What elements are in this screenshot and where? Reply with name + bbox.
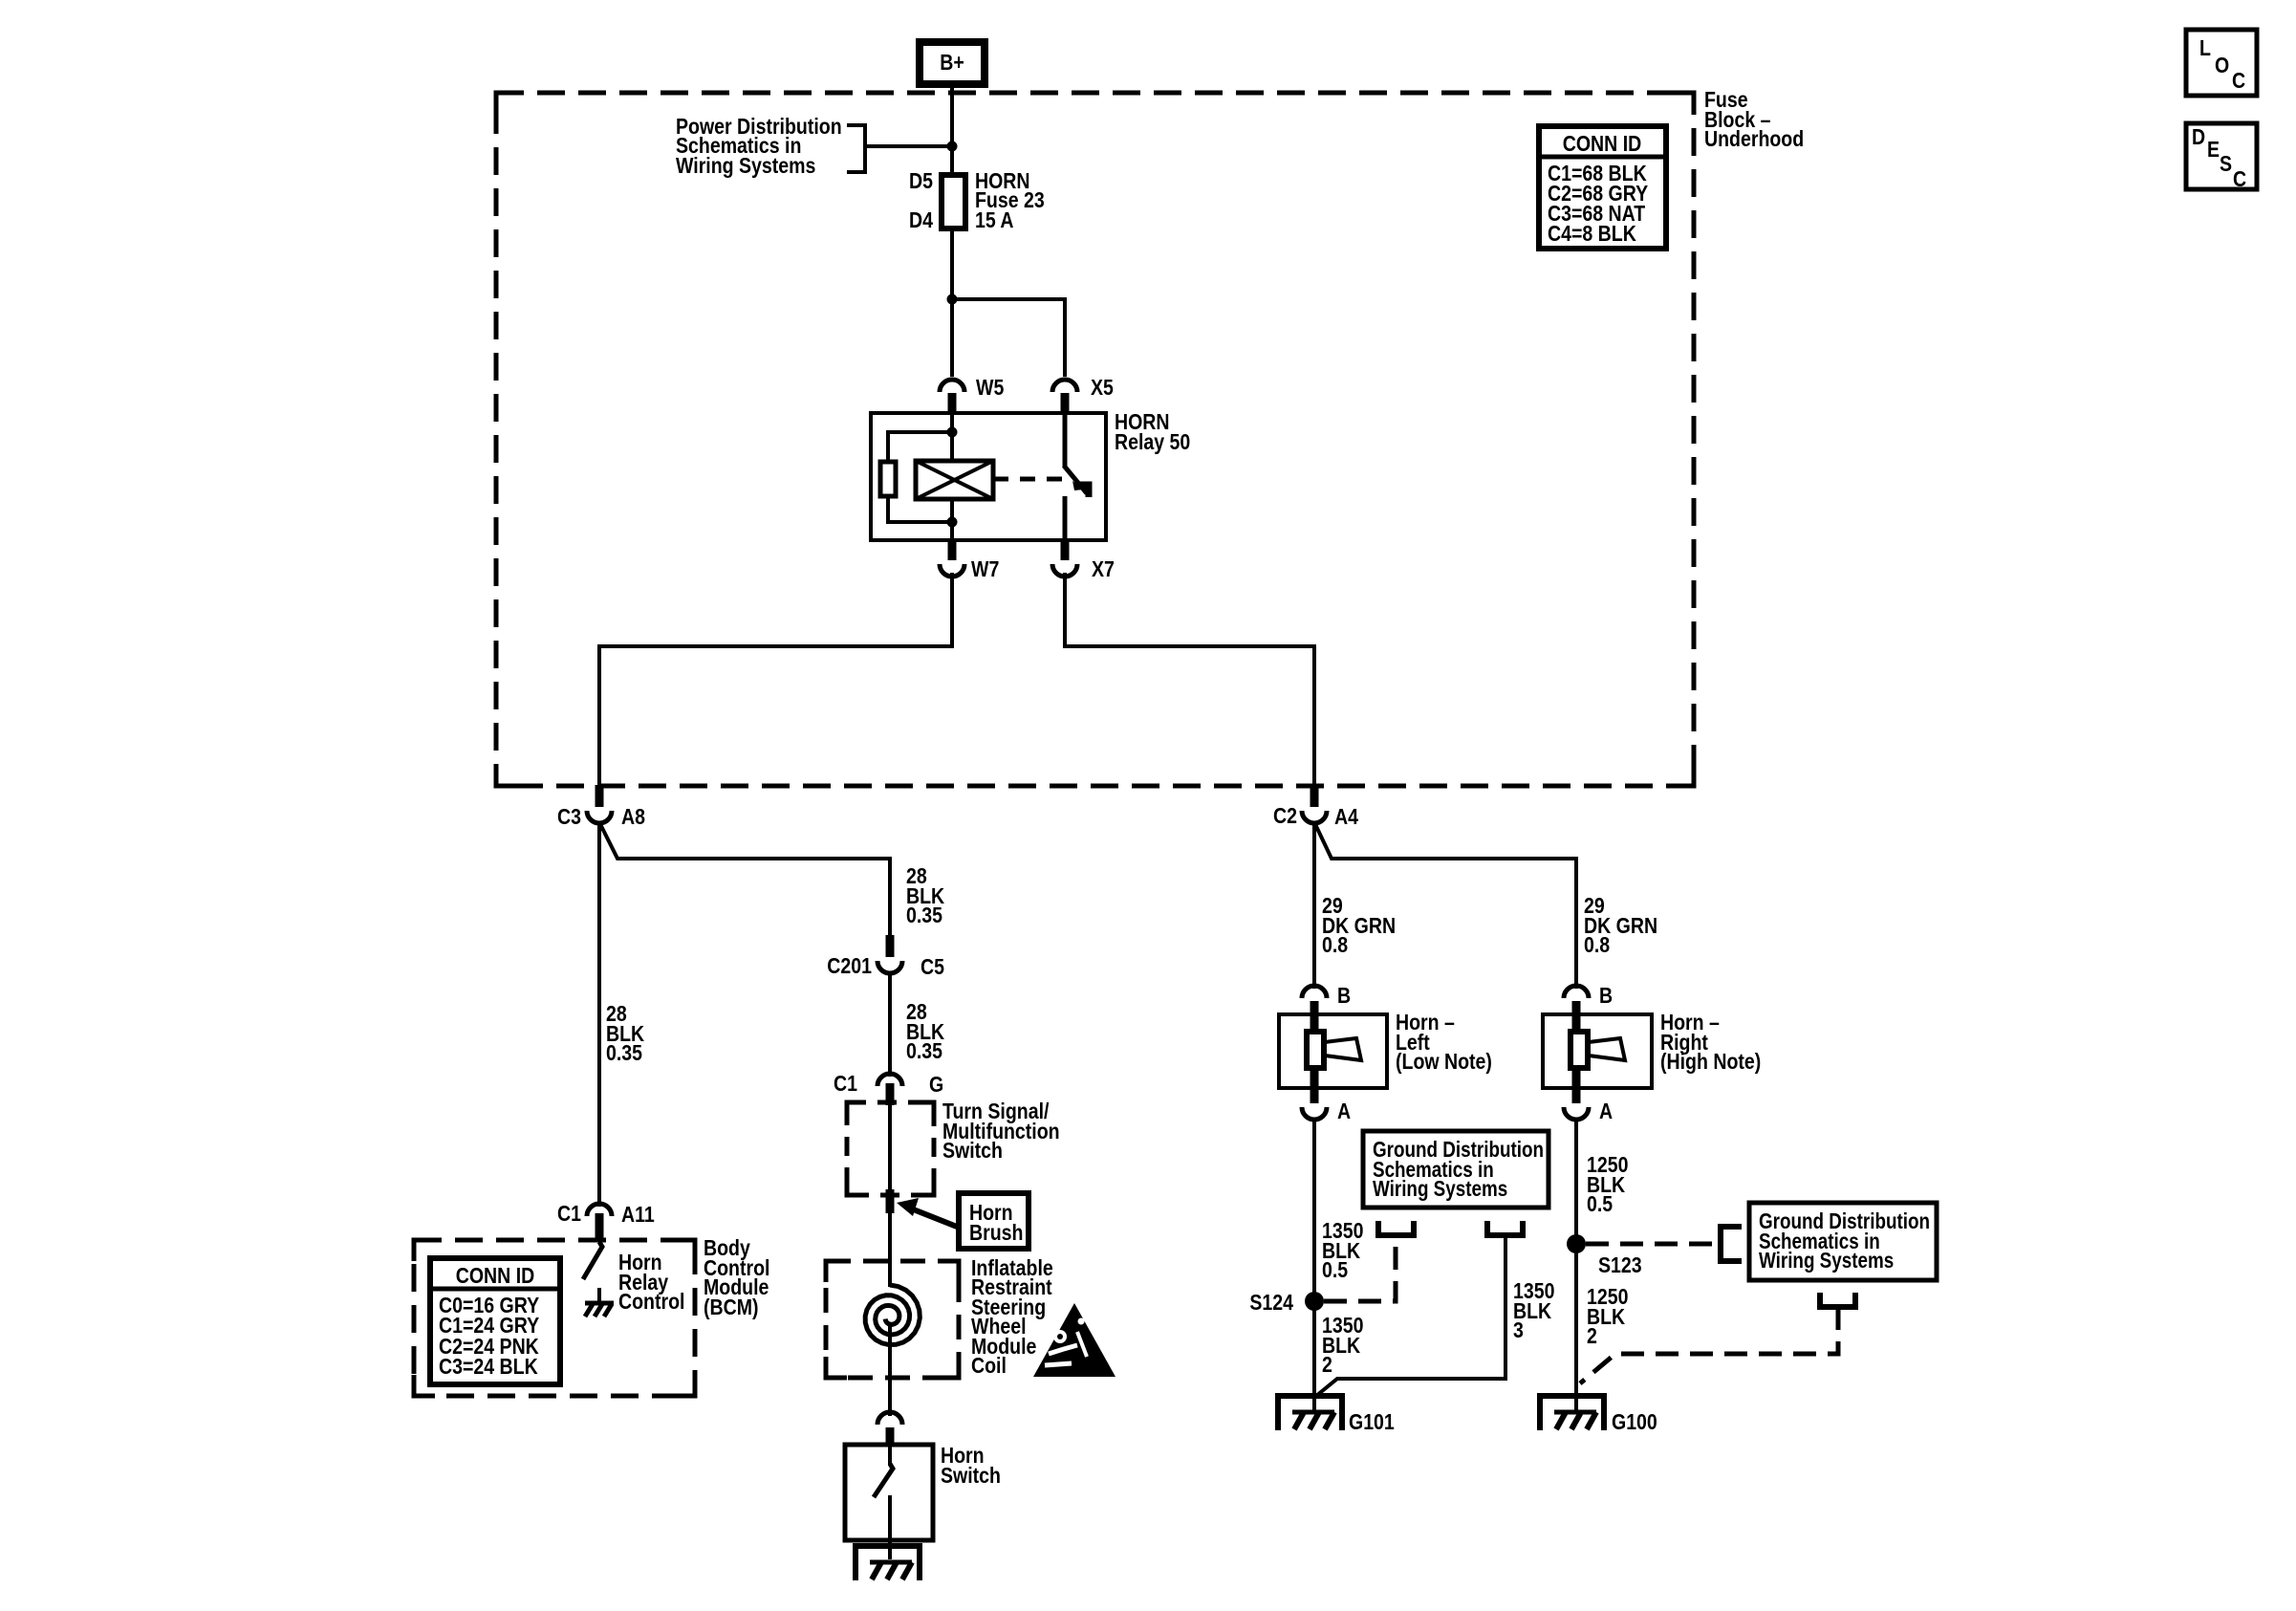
horn switch box: [845, 1445, 933, 1540]
junction node coil bottom: [947, 517, 958, 528]
connector C3/A8: [587, 811, 612, 823]
connector pin C1/G: [886, 1083, 895, 1105]
svg-text:C: C: [2232, 69, 2245, 94]
wire label 1350 BLK 2: [1322, 1314, 1363, 1378]
connector X5: [1052, 380, 1077, 392]
connector W7: [940, 564, 964, 577]
svg-text:Wiring Systems: Wiring Systems: [676, 154, 815, 179]
label Body Control Module (BCM): [704, 1236, 769, 1320]
horn right trumpet: [1589, 1038, 1625, 1060]
svg-text:0.5: 0.5: [1322, 1258, 1348, 1283]
wire branch C2/A4 to right horn: [1314, 822, 1576, 989]
svg-text:W7: W7: [971, 557, 999, 582]
wire B+ to fuse: [950, 85, 954, 175]
svg-text:D: D: [2192, 125, 2205, 150]
connector pin C3/A8: [596, 785, 604, 807]
wire label 1350 BLK 0.5: [1322, 1219, 1363, 1283]
relay actuation dashed link: [993, 477, 1074, 482]
svg-text:C3: C3: [557, 805, 581, 830]
svg-text:S: S: [2220, 152, 2232, 177]
horn brush callout arrow: [911, 1208, 957, 1227]
wire brush to coil: [888, 1212, 892, 1287]
body control module dashed box: [414, 1240, 695, 1396]
relay switch fixed contact: [1063, 413, 1068, 468]
wire C201 to C1/G: [888, 972, 892, 1077]
connector B (right horn): [1564, 986, 1589, 998]
svg-text:X5: X5: [1091, 376, 1114, 401]
wire C1/G through turn signal switch: [888, 1104, 892, 1191]
CONN ID table (BCM): [430, 1258, 560, 1384]
label Fuse Block - Underhood: [1704, 88, 1804, 152]
junction node above relay: [947, 294, 958, 305]
svg-text:Brush: Brush: [969, 1221, 1023, 1246]
svg-text:E: E: [2207, 138, 2220, 163]
horn left box: [1279, 1014, 1387, 1088]
svg-text:2: 2: [1587, 1324, 1597, 1349]
connector C201/C5: [877, 961, 902, 973]
ground G100: [1540, 1396, 1604, 1430]
svg-text:G100: G100: [1612, 1410, 1657, 1435]
ground G101: [1278, 1396, 1342, 1430]
turn signal box corner marks: [847, 1102, 934, 1195]
ground distribution reference box (right): [1749, 1203, 1937, 1280]
wire fuse to relay branch: [950, 229, 954, 377]
coil box corner marks: [826, 1261, 959, 1378]
wire label 28 BLK 0.35 (lower center): [906, 1000, 945, 1064]
svg-text:S124: S124: [1249, 1291, 1293, 1316]
horn left driver element: [1307, 1032, 1324, 1068]
relay switch blade: [1064, 466, 1087, 493]
wire to power distribution bracket: [865, 144, 952, 148]
svg-text:G101: G101: [1349, 1410, 1395, 1435]
connector pin X7: [1061, 539, 1070, 560]
connector A (right horn): [1564, 1107, 1589, 1120]
horn right box: [1543, 1014, 1652, 1088]
resistor (relay): [880, 462, 896, 496]
svg-text:C: C: [2233, 167, 2246, 192]
horn brush contact pin: [886, 1189, 895, 1213]
horn switch lower contact wire: [888, 1495, 892, 1559]
connector X7: [1052, 564, 1077, 577]
bracket right (center ground ref): [1487, 1221, 1523, 1235]
svg-text:0.35: 0.35: [906, 1039, 942, 1064]
svg-text:Wiring Systems: Wiring Systems: [1759, 1249, 1894, 1273]
dashed link S124 to ground distribution: [1324, 1237, 1396, 1301]
svg-text:W5: W5: [976, 376, 1004, 401]
svg-text:Wiring Systems: Wiring Systems: [1373, 1177, 1507, 1201]
horn switch fixed contact: [888, 1445, 892, 1466]
wire coil feed: [950, 413, 954, 461]
connector W5: [940, 380, 964, 392]
svg-text:D5: D5: [909, 169, 933, 194]
wire X7 to C2/A4: [1065, 573, 1314, 786]
label Turn Signal Multifunction Switch: [942, 1099, 1060, 1164]
wire label 1250 BLK 0.5: [1587, 1153, 1628, 1217]
fuse HORN Fuse 23 15A: [909, 169, 1045, 233]
svg-text:Underhood: Underhood: [1704, 127, 1804, 152]
wire label 28 BLK 0.35 (upper center): [906, 864, 945, 928]
connector C1/G: [877, 1074, 902, 1086]
wire coil to horn switch: [888, 1322, 892, 1416]
wire branch C3/A8 to C201: [599, 822, 890, 936]
fuse block box corner marks: [496, 93, 1694, 786]
svg-text:(Low Note): (Low Note): [1396, 1050, 1492, 1075]
turn signal / multifunction switch dashed box: [847, 1102, 934, 1195]
connector A (left horn): [1302, 1107, 1327, 1120]
horn left trumpet: [1325, 1038, 1361, 1060]
svg-text:C1: C1: [557, 1202, 581, 1227]
ground (BCM internal): [585, 1288, 614, 1317]
connector B (left horn): [1302, 986, 1327, 998]
svg-text:0.35: 0.35: [606, 1041, 642, 1066]
connector pin C2/A4: [1310, 785, 1319, 807]
bracket left (center ground ref): [1378, 1221, 1414, 1235]
svg-text:A11: A11: [621, 1203, 655, 1228]
wire W7 to C3/A8: [599, 573, 952, 786]
svg-text:D4: D4: [909, 208, 933, 233]
wire branch to X5: [952, 299, 1065, 377]
horn brush callout box: [959, 1193, 1029, 1249]
svg-text:15 A: 15 A: [975, 208, 1014, 233]
svg-text:G: G: [929, 1073, 943, 1098]
svg-text:C1: C1: [834, 1072, 857, 1097]
svg-text:Switch: Switch: [942, 1139, 1003, 1164]
svg-text:CONN ID: CONN ID: [1563, 132, 1641, 157]
svg-text:A8: A8: [621, 805, 645, 830]
ground distribution reference box (center): [1363, 1131, 1549, 1208]
svg-text:C4=8 BLK: C4=8 BLK: [1548, 222, 1636, 247]
svg-text:C2: C2: [1273, 804, 1297, 829]
horn right driver element: [1570, 1032, 1588, 1068]
svg-text:A: A: [1337, 1099, 1351, 1124]
relay switch blade barb: [1072, 481, 1083, 490]
connector pin W5: [948, 393, 957, 414]
label Horn - Right (High Note): [1660, 1011, 1761, 1075]
label Horn Switch: [941, 1444, 1001, 1489]
relay switch contact corner: [1074, 485, 1089, 497]
LOC icon box: [2186, 30, 2257, 96]
power node B+: [920, 42, 985, 84]
svg-text:A: A: [1599, 1099, 1613, 1124]
svg-text:Control: Control: [618, 1290, 684, 1315]
svg-text:O: O: [2215, 54, 2229, 78]
svg-text:Relay 50: Relay 50: [1115, 430, 1190, 455]
DESC icon box: [2186, 123, 2257, 191]
wire coil to W7: [950, 499, 954, 540]
SRS warning triangle: [1033, 1303, 1116, 1377]
svg-text:A4: A4: [1334, 805, 1358, 830]
label Power Distribution Schematics in Wiring Systems: [676, 115, 842, 179]
coil spiral (clockspring): [865, 1285, 920, 1345]
svg-text:Switch: Switch: [941, 1464, 1001, 1489]
ground (horn switch): [856, 1546, 920, 1580]
svg-text:B: B: [1337, 984, 1351, 1009]
wire label 1350 BLK 3: [1513, 1279, 1554, 1343]
bracket (right ground ref, side): [1721, 1227, 1742, 1261]
svg-text:(High Note): (High Note): [1660, 1050, 1761, 1075]
svg-text:0.5: 0.5: [1587, 1192, 1613, 1217]
svg-text:S123: S123: [1598, 1253, 1642, 1278]
horn switch blade: [874, 1464, 893, 1497]
BCM box corner marks: [414, 1240, 695, 1396]
svg-text:0.8: 0.8: [1584, 933, 1610, 958]
label Horn Relay Control: [618, 1251, 684, 1315]
splice S123: [1567, 1234, 1586, 1253]
svg-text:Coil: Coil: [971, 1354, 1007, 1379]
wire label 1250 BLK 2: [1587, 1285, 1628, 1349]
wire label 29 DK GRN 0.8 (left horn): [1322, 894, 1396, 958]
node junction on B+ feed: [947, 142, 958, 152]
CONN ID table (fuse block): [1539, 126, 1666, 249]
dashed link right ground ref to G100: [1580, 1307, 1838, 1383]
wire right horn to G100 (circuit 1250): [1574, 1118, 1578, 1412]
svg-text:C3=24 BLK: C3=24 BLK: [439, 1355, 538, 1380]
resistor parallel path: [888, 432, 952, 462]
svg-text:0.8: 0.8: [1322, 933, 1348, 958]
label Horn - Left (Low Note): [1396, 1011, 1492, 1075]
wire left horn to G101 (circuit 1350): [1312, 1118, 1316, 1412]
connector pin (horn switch): [886, 1427, 895, 1447]
svg-text:3: 3: [1513, 1318, 1524, 1343]
junction node coil top: [947, 427, 958, 438]
connector pin C201/C5: [886, 935, 895, 957]
label Inflatable Restraint Steering Wheel Module Coil: [971, 1256, 1053, 1379]
svg-text:CONN ID: CONN ID: [456, 1264, 534, 1289]
svg-text:C5: C5: [921, 955, 944, 980]
wire label 29 DK GRN 0.8 (right horn): [1584, 894, 1657, 958]
connector pin X5: [1061, 393, 1070, 414]
svg-text:0.35: 0.35: [906, 903, 942, 928]
relay coil: [916, 461, 993, 499]
svg-text:2: 2: [1322, 1353, 1332, 1378]
fuse block underhood dashed outline: [496, 93, 1694, 786]
connector pin C1/A11: [596, 1213, 604, 1242]
connector pin B (left horn): [1310, 1001, 1319, 1031]
connector pin B (right horn): [1572, 1001, 1581, 1031]
svg-text:C201: C201: [827, 954, 872, 979]
svg-text:(BCM): (BCM): [704, 1295, 759, 1320]
wire resistor bottom: [888, 496, 952, 522]
horn relay control switch blade: [583, 1242, 602, 1279]
reference bracket (power distribution): [847, 125, 865, 172]
svg-text:B: B: [1599, 984, 1613, 1009]
wire C3/A8 to C1/A11 (circuit 28): [597, 822, 601, 1207]
connector (horn switch): [877, 1412, 902, 1425]
relay box HORN Relay 50: [871, 413, 1106, 540]
bracket (right ground ref, bottom): [1820, 1293, 1855, 1307]
connector C1/A11: [587, 1204, 612, 1216]
wire 1350 BLK 3 to G101: [1316, 1235, 1505, 1396]
connector pin W7: [948, 539, 957, 560]
connector C2/A4: [1302, 811, 1327, 823]
splice S124: [1305, 1292, 1324, 1311]
connector pin A (left horn): [1310, 1069, 1319, 1103]
steering wheel module coil dashed box: [826, 1261, 959, 1378]
relay switch lower contact: [1063, 496, 1068, 540]
svg-text:X7: X7: [1092, 557, 1115, 582]
svg-text:B+: B+: [940, 51, 964, 76]
connector pin A (right horn): [1572, 1069, 1581, 1103]
dashed link S123 to ground distribution (right): [1586, 1242, 1715, 1247]
wire C2/A4 to left horn (circuit 29): [1312, 822, 1316, 989]
svg-text:L: L: [2199, 36, 2211, 61]
wire label 28 BLK 0.35 (left): [606, 1002, 645, 1066]
